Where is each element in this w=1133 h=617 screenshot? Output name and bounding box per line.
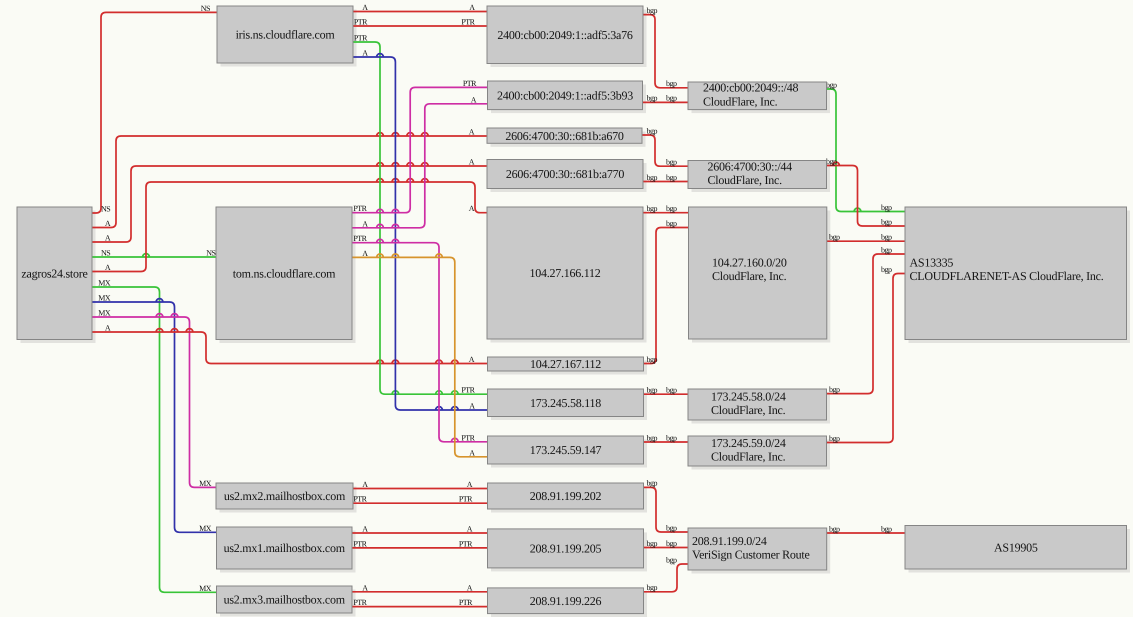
svg-text:A: A xyxy=(362,219,368,228)
svg-text:bgp: bgp xyxy=(647,6,658,15)
wire 208.91.199.0/24 bgp AS19905 xyxy=(827,524,905,533)
svg-text:iris.ns.cloudflare.com: iris.ns.cloudflare.com xyxy=(236,28,336,42)
svg-text:NS: NS xyxy=(101,249,110,258)
svg-text:tom.ns.cloudflare.com: tom.ns.cloudflare.com xyxy=(233,266,336,280)
svg-text:PTR: PTR xyxy=(353,495,367,504)
svg-text:bgp: bgp xyxy=(881,245,892,254)
svg-text:bgp: bgp xyxy=(666,523,677,532)
svg-text:A: A xyxy=(105,234,111,243)
svg-text:PTR: PTR xyxy=(461,18,475,27)
svg-text:MX: MX xyxy=(98,294,111,303)
wire 208.91.199.226 bgp 208.91.199.0/24 xyxy=(644,555,689,592)
svg-text:104.27.167.112: 104.27.167.112 xyxy=(530,357,601,371)
svg-text:173.245.58.118: 173.245.58.118 xyxy=(530,396,601,410)
svg-text:bgp: bgp xyxy=(826,157,837,166)
wire 104.27.166.112 bgp 104.27.160.0/20 xyxy=(643,204,689,213)
svg-text:bgp: bgp xyxy=(647,94,658,103)
wire 2606:4700:30::681b:a770 bgp 2606:4700:30::/44 xyxy=(643,173,688,182)
svg-text:bgp: bgp xyxy=(666,173,677,182)
svg-text:PTR: PTR xyxy=(459,598,473,607)
wire iris.ns.cloudflare.com A 2400:cb00:2049:1::adf5:3a76 xyxy=(353,3,487,12)
svg-text:2606:4700:30::681b:a770: 2606:4700:30::681b:a770 xyxy=(506,167,624,181)
node 173.245.59.147 xyxy=(488,436,644,464)
wire us2.mx3.mailhostbox.com PTR 208.91.199.226 xyxy=(352,598,488,607)
node 208.91.199.202 xyxy=(488,483,644,509)
wire us2.mx1.mailhostbox.com PTR 208.91.199.205 xyxy=(352,539,488,548)
svg-text:bgp: bgp xyxy=(647,539,658,548)
svg-text:208.91.199.205: 208.91.199.205 xyxy=(530,542,602,556)
svg-text:A: A xyxy=(469,448,475,457)
svg-text:208.91.199.0/24: 208.91.199.0/24 xyxy=(692,534,767,548)
wire 2400:cb00:2049:1::adf5:3a76 bgp 2400:cb00:2049::/48 xyxy=(643,6,688,88)
svg-text:VeriSign Customer Route: VeriSign Customer Route xyxy=(692,548,810,562)
svg-text:A: A xyxy=(469,3,475,12)
wire zagros24.store MX us2.mx2.mailhostbox.com xyxy=(92,309,216,488)
svg-text:A: A xyxy=(467,525,473,534)
wire 173.245.58.118 bgp 173.245.58.0/24 xyxy=(644,386,689,395)
wire 2606:4700:30::/44 bgp AS13335 xyxy=(826,157,905,227)
node 104.27.160.0/20 xyxy=(689,207,827,339)
svg-text:PTR: PTR xyxy=(354,18,368,27)
svg-text:A: A xyxy=(469,158,475,167)
svg-text:bgp: bgp xyxy=(881,203,892,212)
svg-text:bgp: bgp xyxy=(647,204,658,213)
svg-text:A: A xyxy=(362,525,368,534)
svg-text:us2.mx2.mailhostbox.com: us2.mx2.mailhostbox.com xyxy=(224,489,346,503)
svg-text:bgp: bgp xyxy=(666,79,677,88)
svg-text:bgp: bgp xyxy=(666,219,677,228)
wire zagros24.store A 2606:4700:30::681b:a770 xyxy=(92,158,487,243)
wire 208.91.199.205 bgp 208.91.199.0/24 xyxy=(644,539,689,548)
node 2400:cb00:2049:1::adf5:3b93 xyxy=(488,81,643,110)
node 173.245.58.118 xyxy=(488,389,644,417)
svg-text:MX: MX xyxy=(98,279,111,288)
svg-text:PTR: PTR xyxy=(353,204,367,213)
node 2606:4700:30::681b:a670 xyxy=(487,128,642,143)
wire zagros24.store A 104.27.167.112 xyxy=(92,324,488,365)
svg-text:bgp: bgp xyxy=(881,265,892,274)
svg-text:bgp: bgp xyxy=(829,233,840,242)
wire us2.mx1.mailhostbox.com A 208.91.199.205 xyxy=(352,525,488,534)
svg-text:A: A xyxy=(471,95,477,104)
node zagros24.store xyxy=(17,207,92,340)
svg-text:bgp: bgp xyxy=(881,233,892,242)
node tom.ns.cloudflare.com xyxy=(216,207,352,340)
svg-text:bgp: bgp xyxy=(666,204,677,213)
node 208.91.199.205 xyxy=(488,529,644,568)
svg-text:bgp: bgp xyxy=(666,94,677,103)
wire us2.mx3.mailhostbox.com A 208.91.199.226 xyxy=(352,583,488,592)
wire 208.91.199.202 bgp 208.91.199.0/24 xyxy=(644,479,689,533)
svg-text:A: A xyxy=(467,583,473,592)
node 208.91.199.0/24 VeriSign xyxy=(688,528,827,570)
svg-text:bgp: bgp xyxy=(647,173,658,182)
svg-text:104.27.160.0/20: 104.27.160.0/20 xyxy=(712,256,787,270)
svg-text:bgp: bgp xyxy=(881,524,892,533)
wire 2606:4700:30::681b:a670 bgp 2606:4700:30::/44 xyxy=(642,126,688,166)
svg-text:208.91.199.226: 208.91.199.226 xyxy=(530,594,602,608)
svg-text:bgp: bgp xyxy=(826,80,837,89)
wire tom.ns.cloudflare.com PTR 2400:cb00:2049:1::adf5:3b93 xyxy=(352,79,488,213)
wire iris.ns.cloudflare.com A 173.245.58.118 xyxy=(353,49,488,411)
node AS13335 xyxy=(905,207,1127,340)
node 2400:cb00:2049:1::adf5:3a76 xyxy=(487,6,643,64)
svg-text:2606:4700:30::681b:a670: 2606:4700:30::681b:a670 xyxy=(505,129,623,143)
wire iris.ns.cloudflare.com PTR 2400:cb00:2049:1::adf5:3a76 xyxy=(353,18,487,27)
svg-text:NS: NS xyxy=(206,249,215,258)
svg-text:A: A xyxy=(469,355,475,364)
svg-text:bgp: bgp xyxy=(829,385,840,394)
svg-text:bgp: bgp xyxy=(666,539,677,548)
svg-text:MX: MX xyxy=(199,584,212,593)
wire zagros24.store A 104.27.166.112 xyxy=(92,179,487,272)
wire us2.mx2.mailhostbox.com PTR 208.91.199.202 xyxy=(353,495,488,504)
svg-text:CloudFlare, Inc.: CloudFlare, Inc. xyxy=(703,94,778,108)
svg-text:bgp: bgp xyxy=(647,433,658,442)
wire tom.ns.cloudflare.com A 2400:cb00:2049:1::adf5:3b93 xyxy=(352,95,488,228)
node 208.91.199.226 xyxy=(488,588,644,614)
svg-text:MX: MX xyxy=(199,479,212,488)
svg-text:A: A xyxy=(362,583,368,592)
svg-text:NS: NS xyxy=(201,4,210,13)
wire 173.245.59.147 bgp 173.245.59.0/24 xyxy=(644,433,689,442)
svg-text:PTR: PTR xyxy=(353,598,367,607)
svg-text:zagros24.store: zagros24.store xyxy=(21,266,87,280)
svg-text:PTR: PTR xyxy=(459,495,473,504)
svg-text:A: A xyxy=(362,249,368,258)
wire zagros24.store MX us2.mx1.mailhostbox.com xyxy=(92,294,217,533)
node AS19905 xyxy=(905,526,1127,570)
svg-text:CLOUDFLARENET-AS CloudFlare, I: CLOUDFLARENET-AS CloudFlare, Inc. xyxy=(910,269,1104,283)
svg-text:AS13335: AS13335 xyxy=(910,256,954,270)
wire 104.27.167.112 bgp 104.27.160.0/20 xyxy=(644,219,689,364)
svg-text:bgp: bgp xyxy=(829,434,840,443)
svg-text:bgp: bgp xyxy=(647,386,658,395)
svg-text:104.27.166.112: 104.27.166.112 xyxy=(529,266,600,280)
wire zagros24.store NS tom.ns.cloudflare.com xyxy=(92,249,216,258)
svg-text:CloudFlare, Inc.: CloudFlare, Inc. xyxy=(712,269,787,283)
svg-text:2606:4700:30::/44: 2606:4700:30::/44 xyxy=(708,159,793,173)
wire zagros24.store A 2606:4700:30::681b:a670 xyxy=(92,128,487,229)
svg-text:A: A xyxy=(362,49,368,58)
svg-text:bgp: bgp xyxy=(647,583,658,592)
svg-text:us2.mx3.mailhostbox.com: us2.mx3.mailhostbox.com xyxy=(224,593,346,607)
node 104.27.167.112 xyxy=(488,357,644,371)
wire 173.245.59.0/24 bgp AS13335 xyxy=(827,265,906,443)
svg-text:PTR: PTR xyxy=(461,386,475,395)
svg-text:bgp: bgp xyxy=(666,386,677,395)
svg-text:2400:cb00:2049:1::adf5:3b93: 2400:cb00:2049:1::adf5:3b93 xyxy=(497,89,633,103)
node us2.mx3.mailhostbox.com xyxy=(217,586,353,613)
wire iris.ns.cloudflare.com PTR 173.245.58.118 xyxy=(353,34,488,395)
svg-text:PTR: PTR xyxy=(354,34,368,43)
svg-text:A: A xyxy=(362,480,368,489)
svg-text:AS19905: AS19905 xyxy=(994,541,1038,555)
svg-text:A: A xyxy=(469,402,475,411)
svg-text:CloudFlare, Inc.: CloudFlare, Inc. xyxy=(711,450,786,464)
wire zagros24.store NS iris.ns.cloudflare.com xyxy=(92,4,217,214)
svg-text:bgp: bgp xyxy=(647,479,658,488)
svg-text:PTR: PTR xyxy=(459,539,473,548)
wire tom.ns.cloudflare.com PTR 173.245.59.147 xyxy=(352,234,488,442)
svg-text:bgp: bgp xyxy=(666,433,677,442)
wire us2.mx2.mailhostbox.com A 208.91.199.202 xyxy=(353,480,488,489)
svg-text:PTR: PTR xyxy=(353,539,367,548)
node 173.245.58.0/24 xyxy=(688,389,827,420)
svg-text:PTR: PTR xyxy=(353,234,367,243)
svg-text:208.91.199.202: 208.91.199.202 xyxy=(530,489,602,503)
wire 2400:cb00:2049::/48 bgp AS13335 xyxy=(826,80,905,212)
svg-text:PTR: PTR xyxy=(463,79,477,88)
svg-text:173.245.59.147: 173.245.59.147 xyxy=(530,443,602,457)
svg-text:bgp: bgp xyxy=(647,355,658,364)
svg-text:A: A xyxy=(467,480,473,489)
svg-text:bgp: bgp xyxy=(666,555,677,564)
wire tom.ns.cloudflare.com A 173.245.59.147 xyxy=(352,249,488,457)
wire zagros24.store MX us2.mx3.mailhostbox.com xyxy=(92,279,217,593)
wire 104.27.160.0/20 bgp AS13335 xyxy=(827,233,905,242)
node 2606:4700:30::681b:a770 xyxy=(487,160,643,189)
svg-text:MX: MX xyxy=(199,524,212,533)
svg-text:CloudFlare, Inc.: CloudFlare, Inc. xyxy=(708,173,783,187)
wire 173.245.58.0/24 bgp AS13335 xyxy=(827,245,906,394)
svg-text:A: A xyxy=(469,204,475,213)
node 2606:4700:30::/44 xyxy=(688,159,827,188)
svg-text:PTR: PTR xyxy=(461,433,475,442)
svg-text:A: A xyxy=(105,324,111,333)
svg-text:bgp: bgp xyxy=(666,158,677,167)
svg-text:NS: NS xyxy=(101,205,110,214)
node iris.ns.cloudflare.com xyxy=(217,6,353,63)
svg-text:2400:cb00:2049::/48: 2400:cb00:2049::/48 xyxy=(703,81,798,95)
node us2.mx2.mailhostbox.com xyxy=(216,483,353,509)
node us2.mx1.mailhostbox.com xyxy=(217,527,353,569)
svg-text:A: A xyxy=(105,219,111,228)
node 173.245.59.0/24 xyxy=(688,436,827,466)
svg-text:MX: MX xyxy=(98,309,111,318)
wire 2400:cb00:2049:1::adf5:3b93 bgp 2400:cb00:2049::/48 xyxy=(643,94,689,103)
svg-text:CloudFlare, Inc.: CloudFlare, Inc. xyxy=(711,403,786,417)
svg-text:A: A xyxy=(469,128,475,137)
svg-text:173.245.58.0/24: 173.245.58.0/24 xyxy=(711,389,786,403)
svg-text:us2.mx1.mailhostbox.com: us2.mx1.mailhostbox.com xyxy=(224,541,346,555)
svg-text:bgp: bgp xyxy=(829,524,840,533)
node 104.27.166.112 xyxy=(487,207,643,339)
svg-text:173.245.59.0/24: 173.245.59.0/24 xyxy=(711,436,786,450)
svg-text:2400:cb00:2049:1::adf5:3a76: 2400:cb00:2049:1::adf5:3a76 xyxy=(497,28,632,42)
node 2400:cb00:2049::/48 xyxy=(688,81,827,110)
svg-text:A: A xyxy=(105,263,111,272)
svg-text:bgp: bgp xyxy=(647,126,658,135)
svg-text:bgp: bgp xyxy=(881,217,892,226)
svg-text:A: A xyxy=(362,3,368,12)
